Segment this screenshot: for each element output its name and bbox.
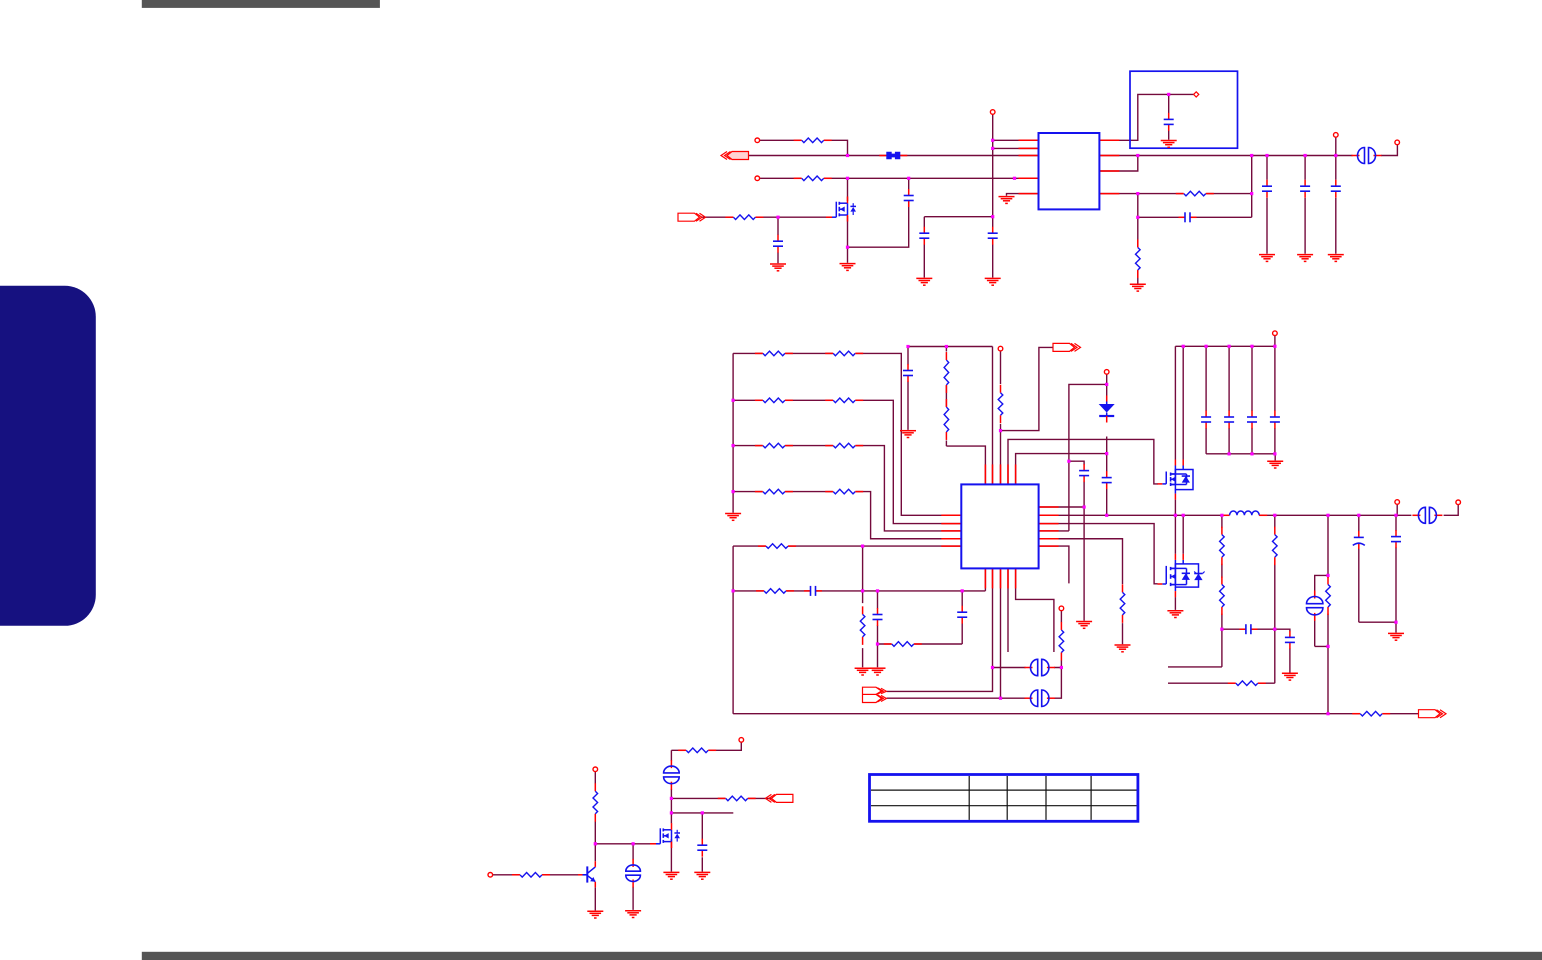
resistor R26 bbox=[1352, 710, 1390, 717]
resistor R29 bbox=[718, 795, 756, 802]
capacitor C17 bbox=[1246, 411, 1258, 429]
capacitor C14 bbox=[1101, 471, 1113, 489]
wire left bus2 to bottom rail bbox=[732, 546, 734, 714]
wire diode node to cap C14 to rail bbox=[1106, 454, 1108, 516]
pin P7 bbox=[998, 346, 1003, 351]
wire shunt loop bbox=[1315, 575, 1328, 646]
wire fb cap row bbox=[1138, 194, 1252, 218]
pin P5 bbox=[1194, 92, 1199, 97]
resistor R7a bbox=[755, 397, 793, 404]
ground bbox=[625, 911, 641, 918]
ground bbox=[870, 668, 886, 675]
wire comp cap row bbox=[1222, 628, 1275, 630]
resistor R3 bbox=[725, 214, 763, 221]
resistor R10 bbox=[758, 543, 796, 550]
wire cap bank C17 bbox=[1251, 346, 1253, 454]
ground bbox=[1282, 673, 1298, 680]
resistor R12 bbox=[943, 399, 950, 440]
port J3 bbox=[1053, 343, 1081, 351]
wire U2 pin b3 down bbox=[1000, 568, 1002, 698]
capacitor C6 bbox=[1261, 180, 1273, 198]
resistor R8a bbox=[755, 442, 793, 449]
ground bbox=[1297, 255, 1313, 262]
resistor R13 bbox=[859, 606, 866, 645]
wire row1 net bbox=[733, 353, 961, 515]
wire M1 drain feeds bbox=[1175, 346, 1183, 459]
wire C23 to ground bbox=[701, 813, 703, 872]
wire source return to cap C3 bbox=[848, 178, 909, 247]
resistor R6b bbox=[825, 350, 863, 357]
wire U1 fb row bbox=[1099, 156, 1251, 218]
resistor R18 bbox=[1119, 584, 1126, 623]
wire U1 pin2 to vertical bbox=[993, 147, 1039, 149]
resistor R2 bbox=[794, 175, 832, 182]
ground bbox=[1115, 645, 1131, 652]
wire C21 branch bbox=[1359, 515, 1396, 622]
capacitor C4 bbox=[918, 227, 930, 245]
wire row3 net bbox=[733, 446, 961, 531]
IC U2 bbox=[961, 484, 1038, 568]
wire boot cap C13 bbox=[1069, 461, 1084, 621]
resistor R4 bbox=[1176, 190, 1214, 197]
wire Q3 source to ground bbox=[670, 839, 672, 872]
capacitor C9 bbox=[987, 227, 999, 245]
resistor R24 bbox=[592, 783, 599, 822]
transistor M2 bbox=[1158, 554, 1205, 597]
capacitor C21 bbox=[1353, 531, 1365, 549]
connector K2 bbox=[1025, 658, 1055, 676]
wire M2 source to ground bbox=[1174, 597, 1176, 610]
wire U1 out1 to box K1 bbox=[1099, 94, 1193, 140]
wire Q3 drain bbox=[670, 813, 672, 823]
port J1 bbox=[721, 152, 749, 160]
revision table bbox=[870, 775, 1138, 822]
wire R24 pullup bbox=[594, 772, 596, 844]
wire port J5 upper bbox=[887, 668, 993, 692]
ground bbox=[770, 264, 786, 271]
wire U2 pin r5 to R18 bbox=[1039, 539, 1123, 644]
resistor R14 bbox=[884, 640, 922, 647]
wire C10 to ground bbox=[907, 347, 909, 430]
pin P15 bbox=[1104, 370, 1109, 375]
wire U2 top pin2 bbox=[992, 347, 994, 485]
shunt K6 bbox=[1306, 591, 1324, 621]
pin P3 bbox=[990, 110, 995, 115]
top header bar bbox=[142, 0, 380, 8]
resistor R20 bbox=[1218, 577, 1225, 616]
connector K7 bbox=[1412, 506, 1442, 524]
pin P12 bbox=[488, 873, 493, 878]
wire rowB right net bbox=[1099, 145, 1397, 156]
ground bbox=[1076, 622, 1092, 629]
resistor R9b bbox=[825, 488, 863, 495]
pin P14 bbox=[739, 738, 744, 743]
wire U1 pin5 to ground bbox=[1007, 194, 1039, 196]
battery K5 bbox=[663, 760, 681, 790]
port J2 bbox=[678, 213, 706, 221]
wire R14 row bbox=[878, 591, 963, 644]
wire C12 chain bbox=[877, 591, 879, 667]
port J5 bbox=[863, 687, 887, 702]
pin P11 bbox=[1456, 500, 1461, 505]
transistor Q1 bbox=[826, 197, 856, 222]
wire output rail bbox=[1039, 505, 1459, 516]
wire U1 pin1 to vertical bbox=[993, 139, 1039, 141]
transistor M1 bbox=[1158, 460, 1194, 500]
wire left bus rows1-4 bbox=[732, 353, 734, 512]
wire zener branch bbox=[1106, 374, 1108, 453]
wire R5 to ground bbox=[1137, 217, 1139, 283]
ground bbox=[999, 197, 1015, 204]
wire boot net bbox=[1039, 384, 1107, 531]
resistor R9a bbox=[755, 488, 793, 495]
ground bbox=[1259, 255, 1275, 262]
capacitor C8 bbox=[1330, 180, 1342, 198]
wire port J5 lower to K3 bbox=[887, 697, 1026, 699]
wire N1 cap bank rail bbox=[1175, 336, 1275, 347]
wire cap bank C16 bbox=[1228, 346, 1230, 454]
resistor R8b bbox=[825, 442, 863, 449]
wire row6 net bbox=[733, 568, 985, 591]
ground bbox=[1328, 255, 1344, 262]
wire cap C5 to ground in box K1 bbox=[1168, 94, 1170, 139]
wire U2 pin b5 stub bbox=[1016, 568, 1054, 652]
ground bbox=[1388, 633, 1404, 640]
resistor R6a bbox=[755, 350, 793, 357]
wire U2 pin r6 stub bbox=[1039, 546, 1069, 583]
wire R19 R20 branch bbox=[1168, 515, 1222, 667]
ground bbox=[900, 431, 916, 438]
wire Q2 collector node bbox=[594, 844, 596, 862]
wire Q2 emitter to ground bbox=[594, 887, 596, 910]
ground bbox=[587, 911, 603, 918]
wire R22 to pin P9 bbox=[1060, 611, 1062, 668]
ground bbox=[1267, 461, 1283, 468]
capacitor C19h bbox=[1179, 211, 1197, 223]
ground bbox=[916, 278, 932, 285]
wire U2 pin t4 to M1 gate bbox=[1008, 439, 1158, 484]
wire gate row bbox=[595, 843, 658, 845]
pin P8 bbox=[1395, 500, 1400, 505]
capacitor C15 bbox=[1200, 411, 1212, 429]
resistor R21 bbox=[1271, 527, 1278, 566]
resistor R23 bbox=[1324, 577, 1331, 616]
ferrite bead FB1 bbox=[879, 152, 907, 159]
diode D1 bbox=[1099, 396, 1115, 423]
wire row5 net bbox=[733, 545, 961, 547]
connector K0 bbox=[1352, 147, 1382, 165]
resistor R5 bbox=[1134, 239, 1141, 278]
IC U1 pin leads bbox=[1019, 140, 1120, 193]
wire R11 R12 chain bbox=[946, 347, 985, 485]
wire R15 to U2 top pin3 bbox=[1000, 351, 1002, 484]
wire C20 to ground bbox=[1275, 629, 1290, 672]
wire bottom return rail bbox=[733, 713, 1420, 715]
capacitor C10 bbox=[902, 364, 914, 382]
wire node up bbox=[670, 798, 672, 813]
capacitor C19 bbox=[1239, 623, 1257, 635]
ground bbox=[840, 264, 856, 271]
wire C22 to ground bbox=[1395, 515, 1397, 632]
wire U2 pin b4 stub bbox=[1007, 568, 1009, 652]
wire rowB net bbox=[749, 155, 1039, 157]
capacitor C3 bbox=[903, 189, 915, 207]
capacitor C7 bbox=[1299, 180, 1311, 198]
port J4 bbox=[1419, 710, 1447, 718]
capacitor C22 bbox=[1390, 530, 1402, 548]
resistor R11 bbox=[943, 352, 950, 393]
capacitor C18 bbox=[1269, 411, 1281, 429]
ground bbox=[1130, 284, 1146, 291]
resistor R16 bbox=[756, 587, 794, 594]
capacitor C11h bbox=[804, 585, 822, 597]
wire drain row stub bbox=[671, 812, 733, 814]
capacitor C2 bbox=[772, 235, 784, 253]
wire Q1 drain bbox=[847, 178, 849, 201]
capacitor C5 bbox=[1163, 113, 1175, 131]
capacitor C12 bbox=[872, 608, 884, 626]
resistor R22 bbox=[1058, 622, 1065, 661]
port J6 bbox=[765, 794, 793, 802]
wire rail to M2 drain bbox=[1175, 515, 1183, 554]
ground bbox=[725, 514, 741, 521]
wire cap C8 branch bbox=[1335, 156, 1337, 254]
ground bbox=[663, 872, 679, 879]
wire rowD gate net bbox=[702, 216, 832, 218]
wire vertical from pin P3 bbox=[992, 112, 994, 278]
wire base input net bbox=[493, 874, 578, 876]
wire R21 branch bbox=[1168, 515, 1275, 683]
wire cap C7 branch bbox=[1304, 156, 1306, 254]
capacitor C13 bbox=[1078, 464, 1090, 482]
wire K4 to ground bbox=[632, 844, 634, 910]
wire cap bank C18 bbox=[1274, 346, 1276, 454]
wire cap C2 to ground bbox=[777, 217, 779, 263]
left navy tab bbox=[0, 286, 96, 626]
resistor R1 bbox=[794, 137, 832, 144]
pin P2 bbox=[755, 176, 760, 181]
pin P10 bbox=[1273, 331, 1278, 336]
IC U2 pin leads bbox=[941, 464, 1058, 588]
resistor R28 bbox=[678, 747, 716, 754]
resistor R15 bbox=[997, 385, 1004, 424]
wire row4 net bbox=[733, 492, 961, 539]
wire cap C6 branch bbox=[1266, 156, 1268, 254]
resistor R19 bbox=[1218, 527, 1225, 566]
bottom footer bar bbox=[142, 952, 1542, 960]
resistor R25 bbox=[1228, 680, 1266, 687]
box K1 bbox=[1130, 71, 1238, 148]
wire cap bank bottom rail bbox=[1206, 454, 1275, 461]
ground bbox=[985, 278, 1001, 285]
wire K5 chain bbox=[671, 742, 741, 798]
inductor L1 bbox=[1222, 511, 1268, 515]
wire U2 pin t5 to diode node bbox=[1016, 454, 1107, 485]
ground bbox=[855, 668, 871, 675]
wire K2 row bbox=[993, 667, 1062, 669]
pin P4 bbox=[1334, 133, 1339, 138]
pin P6 bbox=[1395, 140, 1400, 145]
pin P9 bbox=[1059, 606, 1064, 611]
ground bbox=[694, 872, 710, 879]
wire K3 to node bbox=[1054, 668, 1061, 699]
wire cap bank C15 bbox=[1205, 346, 1207, 454]
wire cap C4 branch bbox=[924, 217, 992, 278]
wire U2 pin r3 to M2 gate bbox=[1039, 524, 1158, 584]
transistor Q2 bbox=[578, 861, 596, 887]
wire rowA from pin to rowB junction bbox=[760, 140, 848, 155]
wire row2 net bbox=[733, 400, 961, 523]
ground bbox=[1161, 141, 1177, 148]
wire sense divider top bbox=[1327, 515, 1329, 713]
wire R13 divider bbox=[862, 546, 864, 667]
wire pin P8 stub bbox=[1396, 505, 1398, 516]
capacitor C12b bbox=[956, 606, 968, 624]
wire top bypass rail bbox=[908, 346, 993, 348]
wire to port J6 bbox=[671, 797, 771, 799]
wire rowC net bbox=[760, 177, 1039, 179]
wire U2 right pin r1 bbox=[1039, 506, 1085, 508]
pin P13 bbox=[593, 767, 598, 772]
battery K4 bbox=[625, 859, 642, 888]
wire U1 out2 join rowB bbox=[1099, 156, 1137, 172]
capacitor C23 bbox=[696, 839, 708, 857]
capacitor C16 bbox=[1223, 411, 1235, 429]
wire port J3 net bbox=[1001, 347, 1055, 430]
IC U1 bbox=[1039, 133, 1100, 209]
resistor R27 bbox=[512, 871, 550, 878]
resistor R7b bbox=[825, 397, 863, 404]
connector K3 bbox=[1025, 689, 1055, 707]
wire M1 source to rail bbox=[1174, 500, 1176, 516]
wire Q1 source to ground node bbox=[847, 216, 849, 263]
wire pin P4 to rowB bbox=[1335, 137, 1337, 155]
transistor Q3 bbox=[650, 823, 680, 848]
ground bbox=[1167, 611, 1183, 618]
pin P1 bbox=[755, 138, 760, 143]
wire U2 pin b2 down bbox=[992, 568, 994, 667]
capacitor C20 bbox=[1284, 631, 1296, 649]
